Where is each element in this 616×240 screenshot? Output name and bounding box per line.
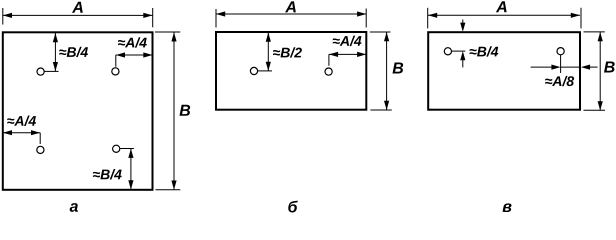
hole top-right (a) xyxy=(112,68,119,75)
label A/4 top-right (a) xyxy=(118,37,147,47)
dimension B extension ticks (a) xyxy=(155,32,180,190)
caption a xyxy=(70,203,78,212)
dimension A extension lines (a) xyxy=(3,8,153,27)
extension line bottom-left hole (a) xyxy=(39,133,41,144)
label A/8 (v) xyxy=(545,76,574,86)
hole bottom-left (a) xyxy=(37,146,44,153)
dimension A/8 outside arrows (v) xyxy=(531,65,598,70)
label A (a) xyxy=(72,2,83,13)
hole right (b) xyxy=(325,68,332,75)
leader line bottom-right hole (a) xyxy=(120,148,134,150)
dimension B line (v) xyxy=(598,32,603,110)
dimension A/4 line (b) xyxy=(329,52,366,57)
leader line left hole (b) xyxy=(258,70,272,72)
dimension A line (b) xyxy=(216,11,366,16)
label B (a) xyxy=(180,105,191,116)
hole top-left (a) xyxy=(37,68,44,75)
dimension B line (b) xyxy=(384,32,389,110)
label B (b) xyxy=(393,62,404,73)
dimension A/4 line bottom-left (a) xyxy=(3,130,40,135)
dimension A/4 line top-right (a) xyxy=(116,52,153,57)
hole bottom-right (a) xyxy=(113,145,120,152)
hole left (v) xyxy=(444,48,451,55)
dimension A extension lines (v) xyxy=(428,8,581,29)
label A (b) xyxy=(285,1,296,12)
label B/4 (v) xyxy=(470,46,499,56)
caption b xyxy=(288,201,298,213)
dimension B extension ticks (b) xyxy=(370,32,392,110)
label A/4 bottom-left (a) xyxy=(7,116,36,126)
panel outline (a) xyxy=(3,32,153,190)
extension stem below right hole (v) xyxy=(560,55,562,73)
leader line top-left hole (a) xyxy=(44,70,58,72)
dimension A extension lines (b) xyxy=(216,9,366,28)
label B/4 bottom-right (a) xyxy=(93,169,122,179)
dimension B extension ticks (v) xyxy=(584,32,606,110)
dimension B/4 line bottom-right (a) xyxy=(128,149,133,190)
panel outline (b) xyxy=(216,32,366,110)
extension line right hole (b) xyxy=(328,54,330,65)
hole left (b) xyxy=(250,67,257,74)
caption v xyxy=(503,203,512,212)
label B/2 (b) xyxy=(273,47,302,57)
label B/4 top-left (a) xyxy=(59,47,88,57)
dimension A line (a) xyxy=(3,13,153,18)
label A (v) xyxy=(496,1,507,12)
dimension B/4 line top-left (a) xyxy=(53,33,58,71)
label B (v) xyxy=(604,61,615,72)
dimension B/2 line (b) xyxy=(266,33,271,71)
leader line left hole (v) xyxy=(452,50,466,52)
panel outline (v) xyxy=(428,32,580,110)
dimension B/4 outside arrows (v) xyxy=(460,20,465,68)
hole right (v) xyxy=(557,48,564,55)
label A/4 (b) xyxy=(333,36,362,46)
extension line top-right hole (a) xyxy=(115,55,117,67)
dimension B line (a) xyxy=(171,32,176,190)
dimension A line (v) xyxy=(428,13,580,18)
